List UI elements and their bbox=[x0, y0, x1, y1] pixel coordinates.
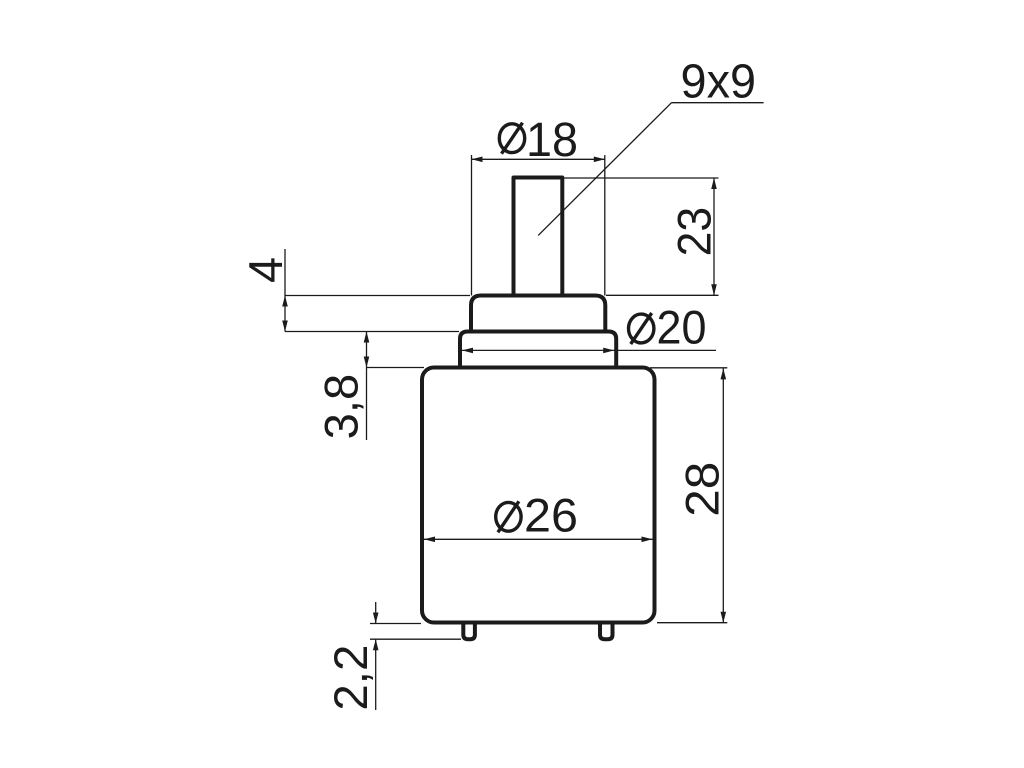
dimension 2,2: bottom extension line bbox=[370, 638, 461, 640]
dimension 23: dimension line bbox=[713, 178, 715, 295]
label 9x9: text bbox=[681, 55, 757, 108]
svg-text:3,8: 3,8 bbox=[315, 374, 368, 440]
dimension Ø20: value text 20 bbox=[657, 301, 707, 354]
dimension Ø18: extension line left bbox=[471, 155, 473, 296]
svg-text:4: 4 bbox=[239, 257, 292, 283]
dimension 3,8: bottom arrow bbox=[364, 357, 370, 368]
dimension Ø18: diameter symbol bbox=[499, 123, 524, 154]
dimension 28: bottom arrow bbox=[721, 612, 727, 623]
svg-text:28: 28 bbox=[675, 462, 728, 517]
svg-text:2,2: 2,2 bbox=[324, 645, 377, 711]
label 9x9: leader line to shaft bbox=[538, 103, 671, 236]
label 9x9: underline bbox=[672, 102, 764, 104]
dimension 3,8: bottom extension line bbox=[367, 367, 425, 369]
dimension Ø20: left arrow bbox=[462, 348, 473, 354]
dimension Ø20: dimension line with leader bbox=[462, 349, 716, 351]
svg-text:23: 23 bbox=[667, 207, 720, 257]
dimension Ø26: value text 26 bbox=[524, 488, 578, 541]
dimension 2,2: upper dimension line bbox=[375, 602, 377, 624]
main body (Ø26 x 28) bbox=[422, 368, 655, 623]
dimension Ø18: value text 18 bbox=[526, 113, 578, 167]
dimension Ø18: dimension line bbox=[472, 158, 605, 160]
dimension 4: bottom arrow bbox=[282, 321, 288, 332]
dimension 2,2: upper arrow (pointing down) bbox=[373, 613, 379, 624]
dimension Ø18: right arrow bbox=[594, 157, 605, 163]
dimension 2,2: lower dimension line bbox=[375, 639, 377, 710]
dimension Ø18: extension line right bbox=[604, 155, 606, 296]
left pin bbox=[463, 624, 475, 639]
right pin bbox=[600, 624, 613, 639]
shaft (9x9 stem) bbox=[514, 178, 563, 298]
dimension 23: top extension line bbox=[564, 177, 719, 179]
dimension 28: top arrow bbox=[721, 368, 727, 379]
dimension Ø26: diameter symbol bbox=[496, 501, 521, 532]
dimension Ø18: left arrow bbox=[472, 157, 483, 163]
dimension 28: value text bbox=[675, 462, 728, 517]
dimension 28: top extension line bbox=[650, 367, 727, 369]
svg-text:26: 26 bbox=[524, 488, 578, 541]
dimension 4: top arrow bbox=[282, 296, 288, 307]
lower collar (Ø20) bbox=[460, 332, 616, 368]
dimension 4: value text bbox=[239, 257, 292, 283]
svg-text:9x9: 9x9 bbox=[681, 55, 757, 108]
dimension 23: bottom arrow bbox=[711, 284, 717, 295]
dimension 3,8: top arrow bbox=[364, 332, 370, 343]
dimension 2,2: value text bbox=[324, 645, 377, 711]
dimension 23: value text bbox=[667, 207, 720, 257]
dimension 2,2: lower arrow (pointing up) bbox=[373, 639, 379, 650]
dimension Ø26: dimension line bbox=[424, 538, 653, 540]
dimension 23: bottom extension line bbox=[606, 294, 719, 296]
dimension 23: top arrow bbox=[711, 178, 717, 189]
dimension 4: bottom extension line bbox=[285, 331, 459, 333]
dimension Ø20: right arrow bbox=[603, 348, 614, 354]
dimension 28: dimension line bbox=[722, 368, 724, 622]
dimension 4: top extension line bbox=[285, 295, 470, 297]
dimension Ø20: diameter symbol bbox=[629, 313, 654, 344]
svg-text:18: 18 bbox=[526, 113, 578, 167]
dimension 2,2: top extension line bbox=[370, 623, 421, 625]
dimension 4: dimension line bbox=[284, 249, 286, 332]
dimension 28: bottom extension line bbox=[657, 622, 727, 624]
dimension Ø26: left arrow bbox=[424, 537, 435, 543]
dimension 3,8: value text bbox=[315, 374, 368, 440]
dimension 3,8: dimension line bbox=[366, 332, 368, 441]
upper collar (Ø18) bbox=[471, 296, 605, 332]
dimension Ø26: right arrow bbox=[642, 537, 653, 543]
svg-text:20: 20 bbox=[657, 301, 707, 354]
